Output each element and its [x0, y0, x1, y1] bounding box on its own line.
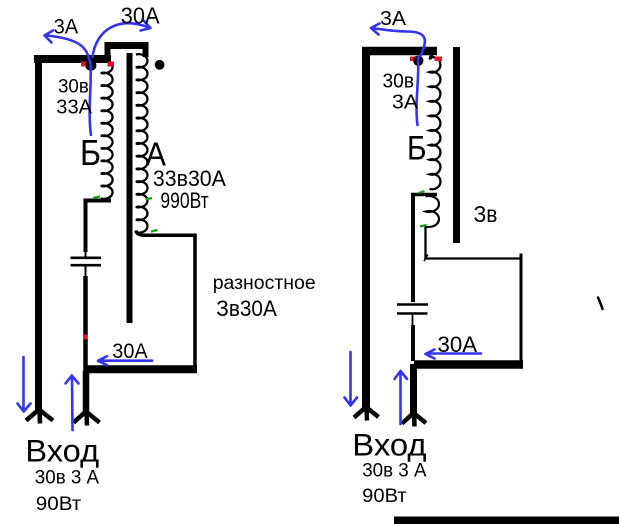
- svg-text:30в: 30в: [58, 75, 89, 97]
- svg-text:3А: 3А: [392, 91, 418, 114]
- svg-text:33А: 33А: [56, 96, 92, 119]
- svg-text:30в 3 А: 30в 3 А: [362, 460, 427, 481]
- svg-text:90Вт: 90Вт: [362, 486, 407, 507]
- svg-text:30А: 30А: [438, 332, 478, 357]
- svg-text:3А: 3А: [380, 7, 406, 30]
- svg-text:990Вт: 990Вт: [160, 188, 208, 213]
- svg-text:30в: 30в: [383, 71, 415, 93]
- svg-text:3А: 3А: [54, 16, 79, 39]
- svg-text:Б: Б: [80, 132, 101, 173]
- svg-text:Б: Б: [407, 130, 427, 168]
- svg-text:90Вт: 90Вт: [36, 494, 82, 515]
- svg-text:Зв30А: Зв30А: [216, 296, 276, 321]
- svg-text:30А: 30А: [121, 2, 160, 28]
- svg-text:разностное: разностное: [213, 272, 316, 294]
- svg-text:Вход: Вход: [352, 426, 426, 462]
- svg-text:Зв: Зв: [474, 201, 498, 227]
- svg-text:30в 3 А: 30в 3 А: [35, 468, 100, 489]
- svg-text:30А: 30А: [112, 340, 147, 363]
- svg-text:Вход: Вход: [25, 433, 99, 469]
